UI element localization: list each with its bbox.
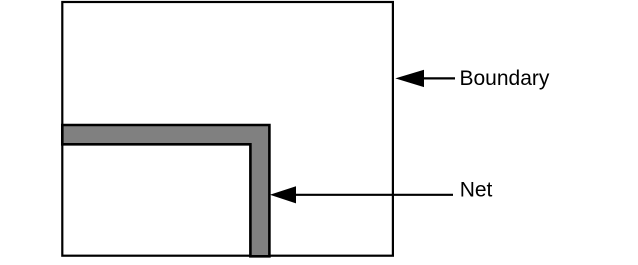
wire: net callout line bbox=[293, 194, 453, 196]
net (gray L-shaped trace) bbox=[62, 125, 269, 256]
boundary box bbox=[62, 2, 393, 256]
wire: boundary callout line bbox=[421, 77, 455, 79]
boundary callout arrowhead bbox=[395, 70, 424, 87]
net callout arrowhead bbox=[270, 186, 296, 203]
svg-text:Boundary: Boundary bbox=[460, 67, 550, 90]
svg-text:Net: Net bbox=[460, 179, 493, 202]
